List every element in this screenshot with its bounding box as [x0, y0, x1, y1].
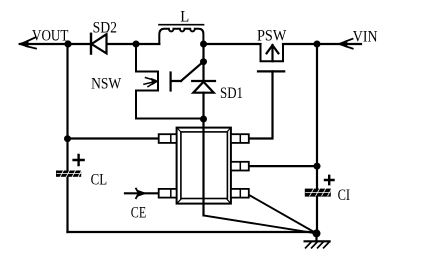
svg-text:NSW: NSW: [91, 76, 121, 93]
svg-text:VIN: VIN: [353, 28, 378, 45]
svg-text:CL: CL: [91, 172, 108, 189]
svg-text:VOUT: VOUT: [32, 28, 69, 45]
svg-text:PSW: PSW: [257, 27, 286, 44]
svg-text:L: L: [180, 8, 189, 25]
svg-text:SD2: SD2: [93, 19, 117, 36]
svg-text:CI: CI: [338, 187, 351, 204]
svg-text:CE: CE: [131, 205, 146, 222]
svg-text:SD1: SD1: [220, 85, 243, 102]
